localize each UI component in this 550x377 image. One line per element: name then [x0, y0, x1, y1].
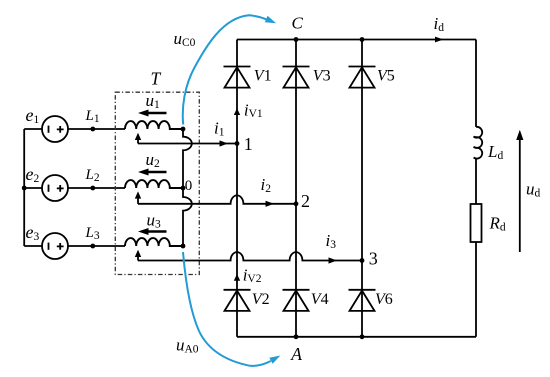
svg-text:e1: e1 [26, 105, 40, 126]
svg-text:L1: L1 [85, 108, 100, 125]
svg-text:id: id [434, 14, 445, 34]
svg-text:0: 0 [185, 178, 193, 194]
node 3 dot [360, 258, 365, 263]
winding u2 [125, 180, 183, 188]
svg-text:3: 3 [369, 249, 378, 269]
node dot L1 [90, 127, 95, 132]
thyristor V6 [349, 290, 376, 311]
source e2 [42, 175, 68, 201]
svg-text:1: 1 [244, 134, 253, 154]
blue arrow uA0 [183, 252, 282, 366]
wire bottom rail [237, 336, 476, 338]
svg-text:C: C [292, 14, 304, 33]
tap arrow phase2 [135, 191, 141, 203]
svg-text:u1: u1 [146, 91, 161, 111]
svg-text:V3: V3 [313, 67, 331, 84]
svg-text:V5: V5 [377, 67, 395, 84]
svg-text:V2: V2 [252, 291, 270, 308]
wire e3 to transformer [68, 245, 125, 247]
node dot winding1 right end [181, 127, 186, 132]
svg-text:T: T [151, 69, 162, 89]
node 0 dot [181, 186, 186, 191]
arrow u1 [138, 110, 167, 117]
node A dot [294, 334, 299, 339]
source e3 [42, 233, 68, 259]
wire leg1 [236, 40, 238, 337]
wire leg3 [361, 40, 363, 337]
wire e1 to transformer [68, 128, 125, 130]
svg-text:i3: i3 [326, 231, 337, 251]
wire top rail [237, 39, 476, 41]
arrow id [435, 37, 444, 43]
svg-text:A: A [290, 344, 302, 364]
wire phase1 output line [138, 143, 237, 145]
arrow i1 [220, 140, 229, 146]
svg-text:u2: u2 [146, 150, 161, 170]
svg-text:i1: i1 [214, 118, 225, 138]
arrow i3 [329, 257, 338, 263]
tap arrow phase3 [135, 250, 141, 261]
arrow iV2 [234, 274, 240, 281]
svg-text:u3: u3 [147, 211, 162, 231]
node dot L3 [90, 244, 95, 249]
wire e2 to transformer [68, 187, 125, 189]
svg-text:Rd: Rd [489, 214, 506, 234]
blue arrow uC0 [183, 15, 278, 124]
transformer box T [115, 92, 199, 274]
node dot L2 [90, 186, 95, 191]
wire e2 to bus [24, 187, 42, 189]
svg-text:V1: V1 [254, 67, 272, 84]
svg-text:e2: e2 [26, 164, 40, 185]
thyristor V5 [349, 67, 376, 88]
source e1 [42, 116, 68, 142]
node 2 dot [294, 201, 299, 206]
resistor Rd [471, 204, 482, 242]
svg-text:e3: e3 [26, 222, 40, 243]
arrow i2 [266, 201, 275, 207]
arrow u3 [138, 228, 167, 235]
node dot winding3 right end [181, 244, 186, 249]
wire left vertical bus [23, 129, 25, 246]
svg-text:Ld: Ld [487, 142, 503, 162]
svg-text:uC0: uC0 [174, 29, 196, 49]
node dot bottom leg3 [360, 334, 365, 339]
thyristor V3 [283, 67, 310, 88]
svg-text:2: 2 [301, 191, 310, 211]
svg-text:i2: i2 [261, 175, 272, 195]
inductor Ld [474, 127, 483, 159]
arrow u2 [138, 169, 167, 176]
svg-text:V4: V4 [311, 291, 329, 308]
arrow iV1 [234, 108, 240, 115]
winding u3 [125, 238, 183, 246]
node junction on left bus [22, 186, 27, 191]
wire e3 to bus [24, 245, 42, 247]
winding u1 [125, 121, 183, 129]
node dot top leg3 [360, 37, 365, 42]
wire e1 to bus [24, 128, 42, 130]
wire phase3 output line with hops over leg1 and leg2 [138, 252, 362, 260]
wire phase2 output line with hop over leg1 [138, 195, 296, 203]
thyristor V2 [224, 290, 251, 311]
svg-text:uA0: uA0 [176, 336, 199, 356]
svg-text:V6: V6 [375, 291, 393, 308]
node 1 dot [235, 141, 240, 146]
thyristor V1 [224, 67, 251, 88]
svg-text:iV2: iV2 [243, 266, 262, 286]
svg-text:L3: L3 [85, 225, 100, 242]
svg-text:ud: ud [526, 180, 541, 200]
tap arrow phase1 [135, 133, 141, 144]
svg-text:L2: L2 [85, 167, 100, 184]
wire leg2 [295, 40, 297, 337]
wire neutral bus with hops [183, 129, 192, 246]
wire load branch right side [475, 40, 477, 337]
svg-text:iV1: iV1 [244, 101, 263, 121]
node dot top leg2 [294, 37, 299, 42]
arrow ud [516, 130, 523, 252]
thyristor V4 [283, 290, 310, 311]
